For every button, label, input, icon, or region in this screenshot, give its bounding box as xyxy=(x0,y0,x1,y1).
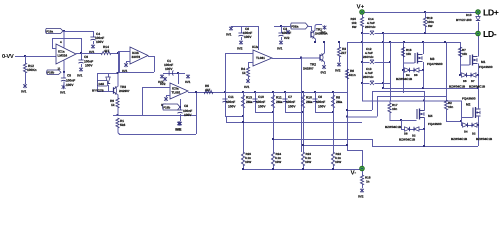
svg-text:5k6: 5k6 xyxy=(120,123,126,127)
svg-text:BYV27B: BYV27B xyxy=(92,89,105,93)
svg-text:0V1: 0V1 xyxy=(226,33,232,37)
svg-text:100nF: 100nF xyxy=(286,100,295,104)
svg-text:0V1: 0V1 xyxy=(60,91,66,95)
svg-text:100nF: 100nF xyxy=(256,100,265,104)
svg-text:TL081: TL081 xyxy=(256,56,265,60)
svg-text:LD-: LD- xyxy=(483,29,497,39)
svg-text:4k7: 4k7 xyxy=(205,88,211,92)
svg-text:BZW04C1B: BZW04C1B xyxy=(385,125,402,129)
svg-text:100Kn: 100Kn xyxy=(27,68,37,72)
svg-text:100V: 100V xyxy=(258,105,266,109)
svg-text:33078: 33078 xyxy=(132,55,141,59)
svg-text:100nF: 100nF xyxy=(316,100,325,104)
svg-text:2Ma: 2Ma xyxy=(336,100,342,104)
svg-text:BZW04C1B: BZW04C1B xyxy=(449,85,466,89)
svg-text:D7: D7 xyxy=(471,79,475,83)
svg-text:100V: 100V xyxy=(244,35,252,39)
svg-text:10n: 10n xyxy=(392,107,397,111)
svg-text:250Vdc: 250Vdc xyxy=(363,75,374,79)
svg-text:5W: 5W xyxy=(428,24,433,28)
svg-text:BZW04C1B: BZW04C1B xyxy=(396,77,413,81)
svg-text:0V2: 0V2 xyxy=(335,69,341,73)
svg-text:2Ma: 2Ma xyxy=(306,100,312,104)
svg-text:D10: D10 xyxy=(466,13,472,17)
svg-text:V+: V+ xyxy=(357,4,365,11)
svg-text:0V2: 0V2 xyxy=(237,47,243,51)
svg-text:F15b: F15b xyxy=(47,71,54,75)
svg-text:M3: M3 xyxy=(430,57,435,61)
svg-text:R8: R8 xyxy=(336,96,340,100)
svg-text:0V2: 0V2 xyxy=(321,71,327,75)
svg-text:250Vdc: 250Vdc xyxy=(365,25,376,29)
svg-text:1n: 1n xyxy=(366,180,370,184)
svg-text:100V: 100V xyxy=(96,40,104,44)
svg-text:FQAP9N90: FQAP9N90 xyxy=(427,62,443,66)
svg-text:10W: 10W xyxy=(305,160,311,164)
svg-text:D8: D8 xyxy=(404,132,408,136)
svg-text:C5: C5 xyxy=(67,74,71,78)
svg-text:BZW04C1B: BZW04C1B xyxy=(476,137,493,141)
svg-text:BZW04C1B: BZW04C1B xyxy=(469,85,486,89)
svg-text:10k: 10k xyxy=(406,52,411,56)
svg-text:10W: 10W xyxy=(335,160,341,164)
svg-text:2N2907: 2N2907 xyxy=(303,67,314,71)
svg-text:D6: D6 xyxy=(414,73,418,77)
svg-text:R10: R10 xyxy=(306,96,312,100)
svg-text:D2: D2 xyxy=(472,132,476,136)
svg-text:FQA9N90: FQA9N90 xyxy=(428,122,442,126)
svg-text:TL081: TL081 xyxy=(172,91,181,95)
svg-text:F15a: F15a xyxy=(46,29,53,33)
svg-text:100V: 100V xyxy=(85,64,93,68)
svg-text:LD+: LD+ xyxy=(483,8,499,18)
svg-text:C10: C10 xyxy=(258,95,264,99)
svg-text:100V: 100V xyxy=(288,105,296,109)
svg-text:D4: D4 xyxy=(464,130,468,134)
svg-text:10W: 10W xyxy=(245,160,251,164)
svg-text:0V2: 0V2 xyxy=(358,195,364,199)
svg-text:10k: 10k xyxy=(462,52,467,56)
svg-text:100V: 100V xyxy=(318,105,326,109)
svg-text:4k7: 4k7 xyxy=(104,49,110,53)
svg-text:1k: 1k xyxy=(242,71,246,75)
svg-text:100V: 100V xyxy=(66,83,74,87)
svg-text:511n: 511n xyxy=(349,73,356,77)
svg-text:M2: M2 xyxy=(466,103,471,107)
svg-text:10W: 10W xyxy=(275,160,281,164)
svg-text:C6: C6 xyxy=(318,95,322,99)
svg-text:0V1: 0V1 xyxy=(321,31,327,35)
svg-text:2N2907: 2N2907 xyxy=(119,89,130,93)
svg-text:100V: 100V xyxy=(228,105,236,109)
svg-text:0V2: 0V2 xyxy=(176,128,182,132)
svg-text:C9: C9 xyxy=(84,55,88,59)
svg-text:10n: 10n xyxy=(448,105,453,109)
svg-text:1k: 1k xyxy=(111,103,115,107)
svg-text:F15b: F15b xyxy=(163,105,170,109)
svg-text:V-: V- xyxy=(351,170,357,177)
svg-text:0V2: 0V2 xyxy=(284,36,290,40)
svg-text:M4: M4 xyxy=(428,114,433,118)
svg-text:2Ma: 2Ma xyxy=(276,100,282,104)
svg-text:0V1: 0V1 xyxy=(185,80,191,84)
svg-text:0-VV: 0-VV xyxy=(2,53,14,60)
svg-text:FQA9N90: FQA9N90 xyxy=(462,97,476,101)
svg-text:250Vdc: 250Vdc xyxy=(363,55,374,59)
svg-text:BZW04C1B: BZW04C1B xyxy=(399,138,416,142)
svg-text:2k7: 2k7 xyxy=(341,51,347,55)
svg-text:0V1: 0V1 xyxy=(244,85,250,89)
svg-text:100nF: 100nF xyxy=(226,100,235,104)
svg-text:0V1: 0V1 xyxy=(77,74,83,78)
svg-text:100V: 100V xyxy=(184,113,192,117)
svg-text:0V2: 0V2 xyxy=(160,82,166,86)
svg-text:BZW04C1B: BZW04C1B xyxy=(451,137,468,141)
svg-text:100nF: 100nF xyxy=(66,79,75,83)
svg-text:100V: 100V xyxy=(165,67,173,71)
svg-text:FQA9N90: FQA9N90 xyxy=(479,65,493,69)
svg-text:M1: M1 xyxy=(481,60,486,64)
svg-text:5W: 5W xyxy=(352,25,357,29)
svg-text:D5: D5 xyxy=(463,79,467,83)
svg-text:C7: C7 xyxy=(288,95,292,99)
svg-text:R11: R11 xyxy=(276,96,282,100)
svg-text:0V1: 0V1 xyxy=(277,47,283,51)
svg-text:IC2a: IC2a xyxy=(252,45,259,49)
svg-text:LM324: LM324 xyxy=(58,54,68,58)
svg-text:D45: D45 xyxy=(99,82,105,86)
svg-text:C8: C8 xyxy=(184,104,188,108)
svg-text:2Ma: 2Ma xyxy=(246,100,252,104)
svg-text:R13: R13 xyxy=(246,96,252,100)
svg-text:F3Ea: F3Ea xyxy=(291,24,299,28)
svg-text:0V1: 0V1 xyxy=(21,90,27,94)
svg-text:BYV27-200: BYV27-200 xyxy=(456,18,472,22)
svg-text:C11: C11 xyxy=(228,95,234,99)
